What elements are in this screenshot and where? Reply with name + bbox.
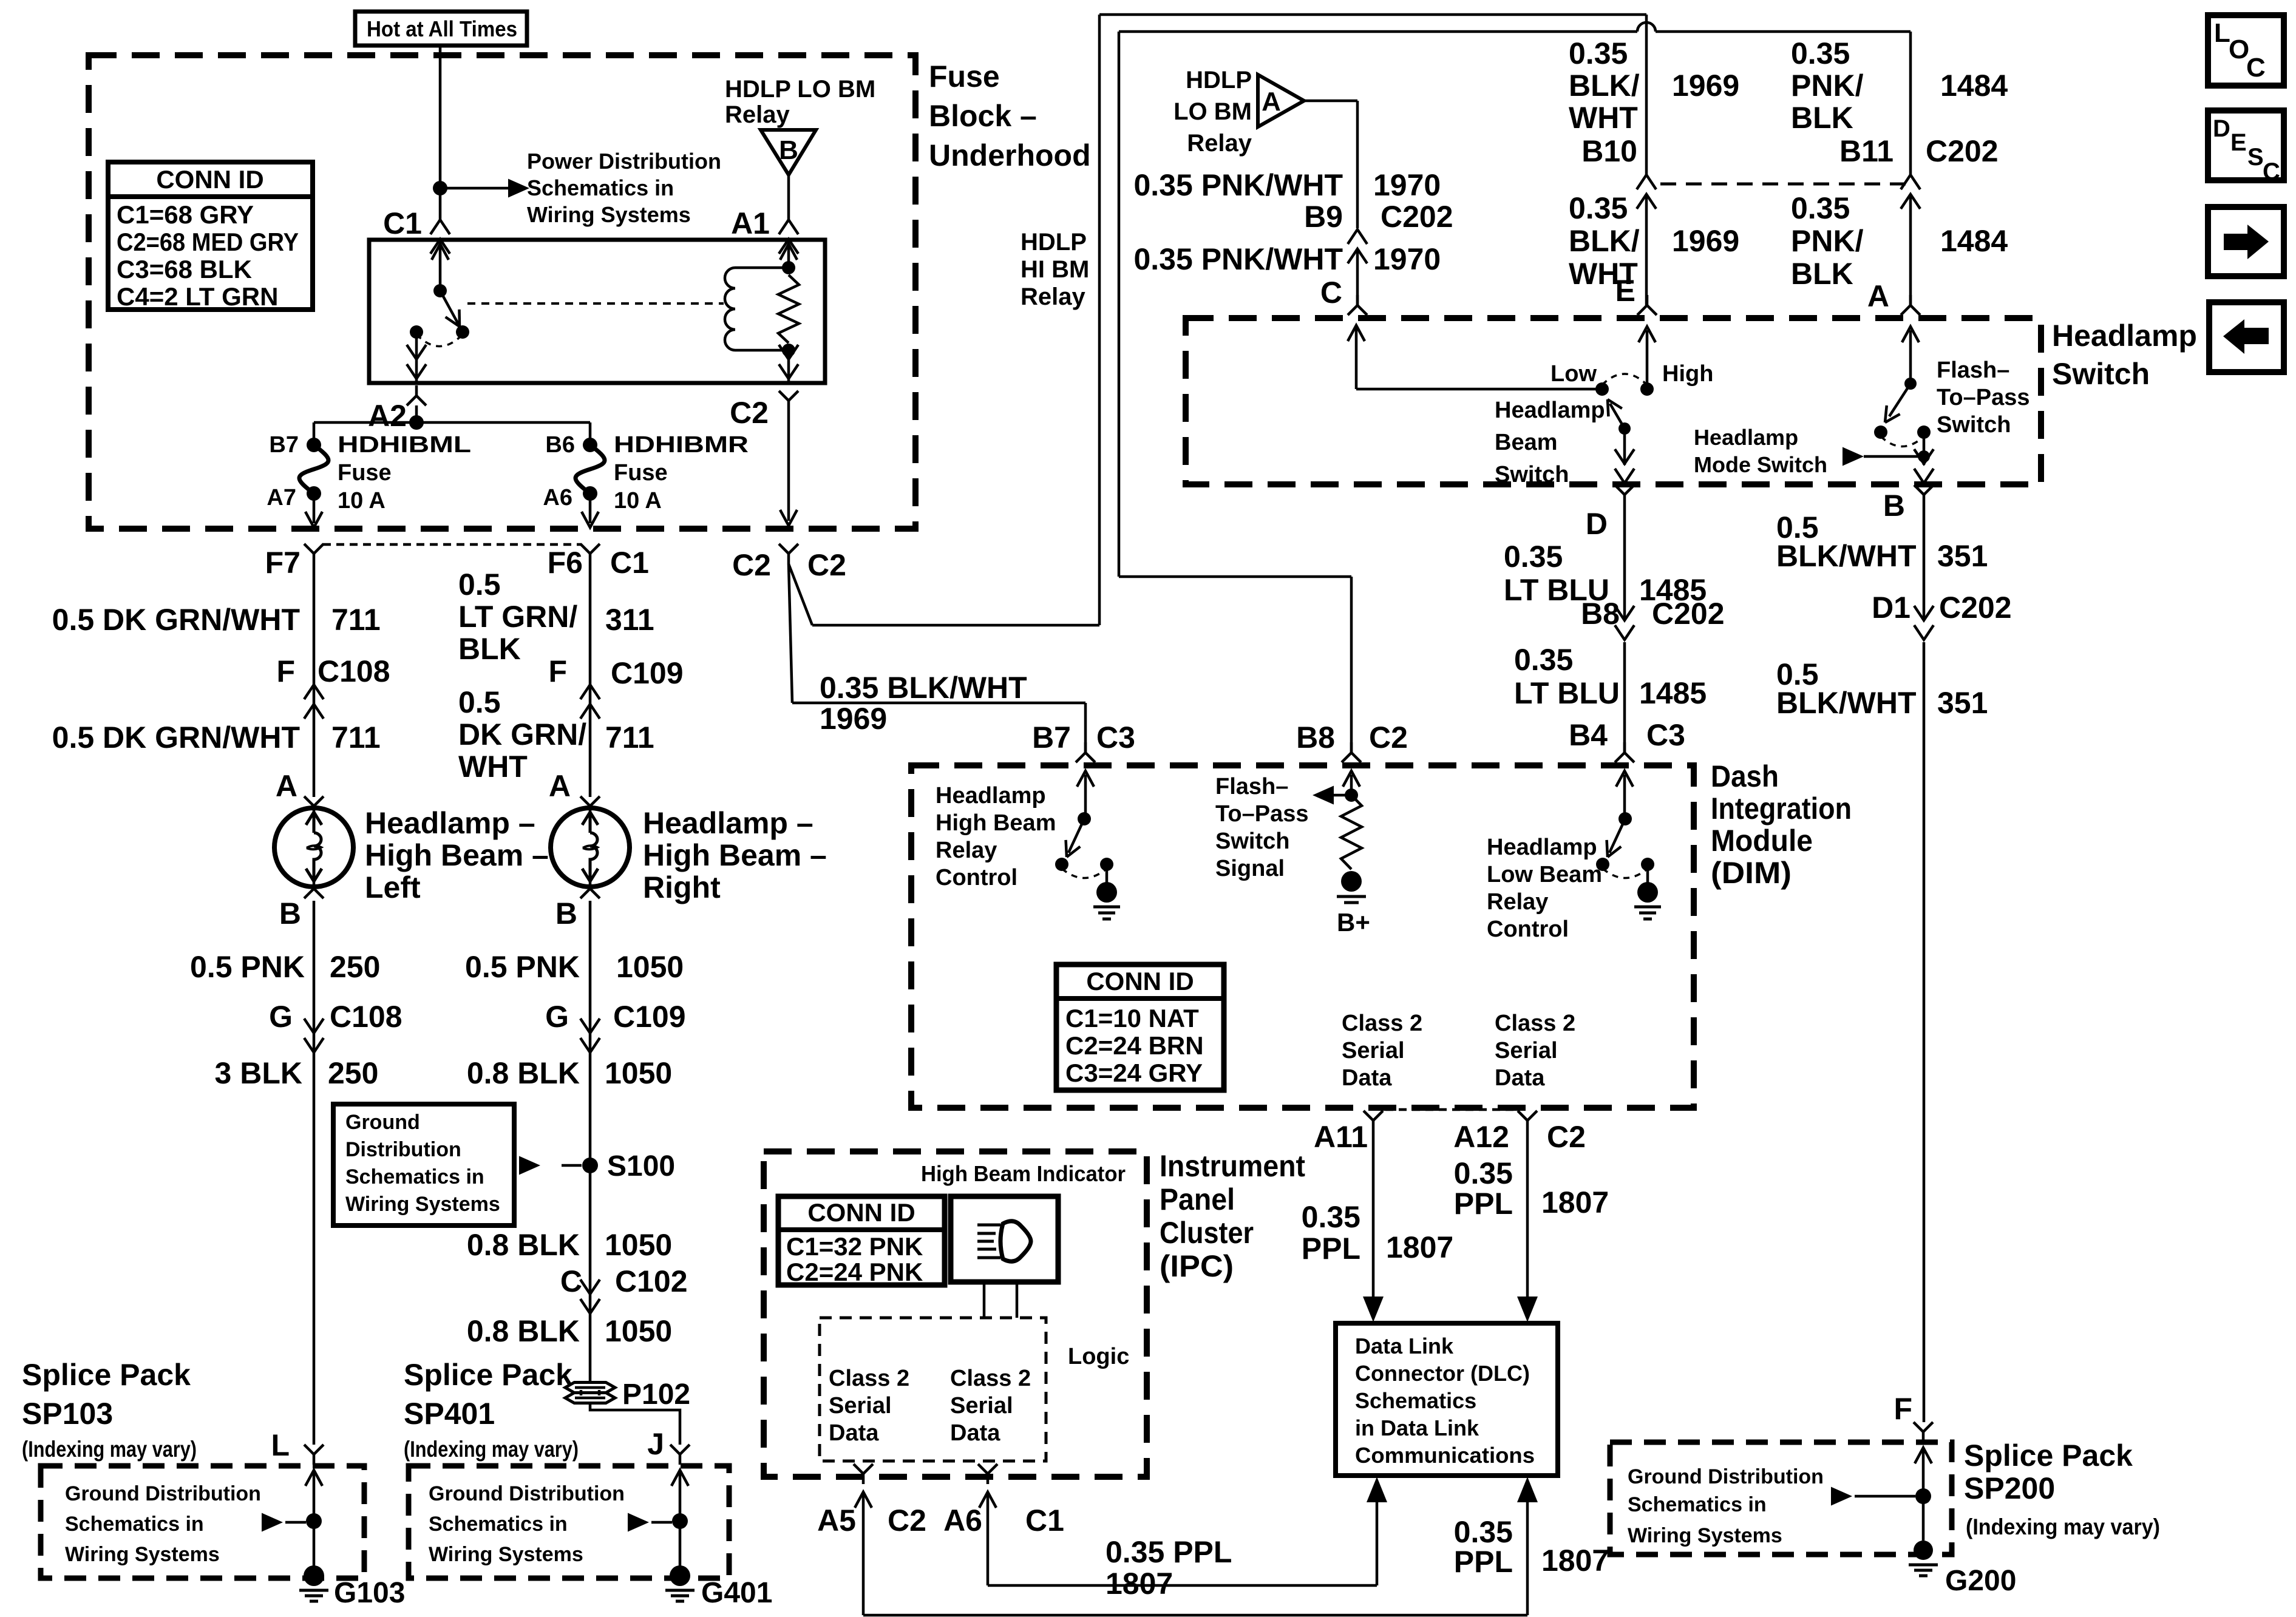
svg-text:C2=24 BRN: C2=24 BRN [1065, 1031, 1204, 1060]
svg-text:Dash: Dash [1711, 759, 1779, 793]
svg-text:(DIM): (DIM) [1711, 856, 1792, 890]
svg-text:Low: Low [1550, 361, 1597, 387]
svg-text:0.35: 0.35 [1569, 191, 1628, 225]
svg-text:Schematics in: Schematics in [65, 1513, 204, 1536]
svg-text:B11: B11 [1839, 134, 1894, 168]
svg-text:B8: B8 [1581, 597, 1620, 631]
svg-text:1807: 1807 [1541, 1544, 1609, 1578]
svg-text:Data: Data [1342, 1065, 1392, 1091]
svg-text:C4=2 LT GRN: C4=2 LT GRN [117, 282, 278, 311]
svg-text:C3: C3 [1646, 718, 1685, 752]
svg-text:S: S [2247, 144, 2264, 171]
svg-text:0.35: 0.35 [1791, 36, 1850, 70]
svg-text:711: 711 [331, 603, 381, 637]
svg-text:High: High [1662, 361, 1713, 387]
svg-text:L: L [2214, 18, 2230, 48]
svg-text:0.35: 0.35 [1569, 36, 1628, 70]
svg-text:Schematics in: Schematics in [429, 1513, 568, 1536]
svg-text:1807: 1807 [1541, 1185, 1609, 1219]
svg-text:Block –: Block – [929, 99, 1037, 133]
svg-text:Serial: Serial [1495, 1038, 1558, 1063]
svg-text:1050: 1050 [605, 1228, 672, 1262]
svg-text:P102: P102 [622, 1378, 690, 1411]
svg-text:BLK/: BLK/ [1569, 224, 1640, 258]
svg-text:A7: A7 [267, 485, 296, 510]
svg-text:Power Distribution: Power Distribution [527, 149, 721, 174]
svg-text:Headlamp: Headlamp [1487, 835, 1597, 860]
svg-text:C: C [2263, 158, 2280, 185]
svg-text:L: L [271, 1428, 290, 1462]
svg-text:HDLP: HDLP [1021, 229, 1087, 256]
svg-text:Module: Module [1711, 824, 1813, 858]
svg-text:SP401: SP401 [404, 1397, 495, 1431]
svg-text:C108: C108 [318, 654, 390, 688]
svg-text:0.8 BLK: 0.8 BLK [467, 1314, 580, 1348]
svg-text:Underhood: Underhood [929, 138, 1091, 172]
svg-text:A11: A11 [1314, 1120, 1368, 1154]
svg-text:C202: C202 [1381, 200, 1453, 234]
svg-text:(Indexing may vary): (Indexing may vary) [1966, 1514, 2160, 1539]
svg-text:G: G [545, 1000, 569, 1034]
svg-text:A1: A1 [731, 206, 770, 240]
svg-text:0.5 DK GRN/WHT: 0.5 DK GRN/WHT [52, 603, 300, 637]
svg-text:D: D [1586, 507, 1608, 541]
svg-text:HDHIBMR: HDHIBMR [614, 432, 749, 458]
svg-text:Headlamp: Headlamp [1694, 425, 1798, 450]
svg-text:1969: 1969 [820, 702, 887, 736]
svg-text:B10: B10 [1581, 134, 1637, 168]
svg-text:0.35: 0.35 [1454, 1515, 1513, 1549]
svg-text:WHT: WHT [458, 750, 528, 784]
svg-text:A5: A5 [817, 1503, 856, 1537]
svg-text:0.35 PPL: 0.35 PPL [1106, 1535, 1232, 1569]
svg-text:Control: Control [1487, 917, 1569, 942]
svg-text:LT GRN/: LT GRN/ [458, 600, 577, 634]
svg-text:F6: F6 [548, 546, 583, 580]
svg-text:Communications: Communications [1355, 1443, 1535, 1468]
svg-text:HDLP: HDLP [1186, 67, 1252, 93]
svg-text:0.5: 0.5 [458, 568, 501, 602]
svg-text:B8: B8 [1296, 720, 1335, 754]
svg-text:CONN ID: CONN ID [156, 165, 263, 194]
svg-text:C3=68 BLK: C3=68 BLK [117, 255, 252, 283]
svg-text:C1=32 PNK: C1=32 PNK [786, 1232, 923, 1261]
svg-text:A2: A2 [368, 399, 407, 433]
svg-text:S100: S100 [607, 1150, 675, 1182]
svg-text:To–Pass: To–Pass [1937, 385, 2029, 410]
svg-text:C2: C2 [1369, 720, 1408, 754]
svg-text:B7: B7 [269, 432, 299, 458]
svg-text:(IPC): (IPC) [1160, 1249, 1234, 1283]
svg-text:Switch: Switch [1495, 462, 1569, 487]
svg-text:Low Beam: Low Beam [1487, 862, 1602, 887]
svg-text:1485: 1485 [1639, 676, 1707, 710]
svg-text:J: J [647, 1427, 664, 1461]
svg-text:3 BLK: 3 BLK [215, 1056, 302, 1090]
svg-text:1050: 1050 [605, 1056, 672, 1090]
svg-text:1969: 1969 [1672, 224, 1739, 258]
svg-text:PNK/: PNK/ [1791, 69, 1864, 103]
svg-text:Ground Distribution: Ground Distribution [429, 1482, 625, 1505]
svg-text:Switch: Switch [1215, 829, 1289, 854]
svg-text:Headlamp –: Headlamp – [643, 806, 813, 840]
svg-text:E: E [2230, 129, 2247, 156]
svg-text:711: 711 [605, 720, 654, 754]
svg-text:B4: B4 [1569, 718, 1608, 752]
svg-text:C2: C2 [1547, 1120, 1586, 1154]
svg-text:C1: C1 [383, 206, 422, 240]
svg-text:F: F [1894, 1392, 1912, 1426]
svg-text:Data Link: Data Link [1355, 1334, 1454, 1358]
svg-text:C108: C108 [330, 1000, 402, 1034]
svg-text:CONN ID: CONN ID [1086, 967, 1194, 995]
svg-text:0.35 PNK/WHT: 0.35 PNK/WHT [1133, 168, 1343, 202]
svg-text:250: 250 [328, 1056, 378, 1090]
svg-text:0.35: 0.35 [1791, 191, 1850, 225]
svg-text:B7: B7 [1032, 720, 1071, 754]
svg-text:WHT: WHT [1569, 101, 1638, 135]
svg-text:F7: F7 [265, 546, 301, 580]
svg-text:0.35: 0.35 [1454, 1156, 1513, 1190]
svg-text:B: B [779, 135, 798, 165]
svg-text:E: E [1615, 274, 1635, 308]
svg-text:0.35: 0.35 [1302, 1200, 1360, 1234]
svg-text:PPL: PPL [1454, 1545, 1513, 1579]
svg-text:C1: C1 [1025, 1503, 1064, 1537]
svg-text:Relay: Relay [725, 101, 790, 128]
svg-text:A6: A6 [943, 1503, 982, 1537]
svg-text:Headlamp: Headlamp [2052, 319, 2197, 353]
svg-text:BLK/: BLK/ [1569, 69, 1640, 103]
svg-text:SP103: SP103 [22, 1397, 113, 1431]
svg-text:in Data Link: in Data Link [1355, 1415, 1479, 1440]
svg-text:Schematics in: Schematics in [527, 175, 674, 200]
svg-text:BLK: BLK [458, 632, 521, 666]
svg-text:311: 311 [605, 603, 654, 637]
svg-text:BLK/WHT: BLK/WHT [1776, 539, 1917, 573]
svg-text:Relay: Relay [936, 838, 997, 863]
svg-text:Left: Left [365, 870, 421, 904]
svg-text:C202: C202 [1939, 591, 2012, 625]
svg-text:1050: 1050 [616, 950, 684, 984]
svg-text:Serial: Serial [950, 1393, 1013, 1419]
svg-text:BLK/WHT: BLK/WHT [1776, 686, 1917, 720]
svg-text:Schematics in: Schematics in [345, 1165, 484, 1188]
svg-text:B9: B9 [1304, 200, 1343, 234]
svg-text:D1: D1 [1872, 591, 1911, 625]
svg-text:HI BM: HI BM [1021, 256, 1089, 283]
svg-text:1807: 1807 [1106, 1567, 1173, 1601]
svg-text:BLK: BLK [1791, 101, 1853, 135]
svg-text:F: F [548, 654, 567, 688]
svg-text:Data: Data [829, 1420, 879, 1446]
svg-text:Splice Pack: Splice Pack [404, 1358, 572, 1392]
svg-text:Flash–: Flash– [1215, 774, 1288, 799]
svg-text:Data: Data [950, 1420, 1000, 1446]
svg-text:Control: Control [936, 865, 1017, 890]
svg-text:Headlamp: Headlamp [1495, 398, 1605, 423]
svg-text:1050: 1050 [605, 1314, 672, 1348]
svg-text:A: A [276, 769, 297, 803]
svg-text:0.5 DK GRN/WHT: 0.5 DK GRN/WHT [52, 720, 300, 754]
svg-text:Beam: Beam [1495, 430, 1558, 455]
svg-text:C1=10 NAT: C1=10 NAT [1065, 1004, 1199, 1032]
svg-text:G103: G103 [334, 1577, 405, 1609]
svg-text:Splice Pack: Splice Pack [1964, 1439, 2133, 1473]
svg-text:C1: C1 [610, 546, 649, 580]
svg-text:Ground Distribution: Ground Distribution [65, 1482, 261, 1505]
svg-text:0.35 BLK/WHT: 0.35 BLK/WHT [820, 671, 1027, 705]
svg-text:0.8 BLK: 0.8 BLK [467, 1228, 580, 1262]
svg-text:Mode Switch: Mode Switch [1694, 452, 1827, 477]
svg-text:Right: Right [643, 870, 721, 904]
svg-text:PPL: PPL [1302, 1232, 1360, 1266]
svg-text:SP200: SP200 [1964, 1471, 2055, 1505]
svg-text:0.35: 0.35 [1514, 643, 1573, 677]
svg-text:Wiring Systems: Wiring Systems [345, 1193, 500, 1216]
svg-text:711: 711 [331, 720, 381, 754]
svg-text:LO BM: LO BM [1173, 98, 1252, 125]
svg-text:B: B [1883, 489, 1905, 523]
svg-text:Switch: Switch [1937, 412, 2011, 438]
svg-text:B: B [279, 897, 301, 931]
svg-text:B: B [555, 897, 577, 931]
svg-text:(Indexing may vary): (Indexing may vary) [22, 1437, 197, 1462]
svg-text:Splice Pack: Splice Pack [22, 1358, 191, 1392]
svg-text:Relay: Relay [1487, 889, 1548, 915]
svg-text:CONN ID: CONN ID [807, 1198, 915, 1227]
svg-text:Connector (DLC): Connector (DLC) [1355, 1361, 1530, 1386]
svg-text:Schematics in: Schematics in [1628, 1493, 1767, 1516]
svg-text:0.5 PNK: 0.5 PNK [465, 950, 580, 984]
svg-text:HDLP LO BM: HDLP LO BM [725, 76, 875, 103]
svg-text:PNK/: PNK/ [1791, 224, 1864, 258]
svg-text:Switch: Switch [2052, 357, 2150, 391]
svg-text:Logic: Logic [1068, 1344, 1129, 1369]
svg-text:1969: 1969 [1672, 69, 1739, 103]
svg-text:C1=68 GRY: C1=68 GRY [117, 200, 254, 229]
svg-text:High Beam: High Beam [936, 810, 1056, 836]
svg-text:C2: C2 [807, 548, 846, 582]
svg-text:C109: C109 [611, 656, 684, 690]
svg-text:C202: C202 [1652, 597, 1725, 631]
svg-text:C109: C109 [613, 1000, 686, 1034]
svg-text:C: C [560, 1264, 582, 1298]
svg-text:C2=24 PNK: C2=24 PNK [786, 1258, 923, 1286]
svg-text:C102: C102 [615, 1264, 688, 1298]
svg-text:BLK: BLK [1791, 257, 1853, 291]
svg-text:Serial: Serial [1342, 1038, 1405, 1063]
svg-text:High Beam Indicator: High Beam Indicator [921, 1161, 1126, 1186]
svg-text:10 A: 10 A [614, 488, 662, 514]
svg-text:Ground: Ground [345, 1111, 420, 1134]
svg-text:Schematics: Schematics [1355, 1388, 1476, 1413]
svg-text:Instrument: Instrument [1160, 1149, 1305, 1183]
svg-text:HDHIBML: HDHIBML [338, 432, 471, 458]
svg-text:C2: C2 [888, 1503, 926, 1537]
svg-text:A6: A6 [543, 485, 572, 510]
svg-text:G200: G200 [1945, 1565, 2016, 1597]
svg-text:DK GRN/: DK GRN/ [458, 717, 586, 751]
svg-text:Wiring Systems: Wiring Systems [65, 1543, 220, 1566]
svg-text:A: A [549, 769, 571, 803]
svg-text:Signal: Signal [1215, 856, 1285, 881]
svg-text:0.5: 0.5 [458, 685, 501, 719]
svg-text:250: 250 [330, 950, 380, 984]
svg-text:Flash–: Flash– [1937, 358, 2009, 383]
svg-text:Fuse: Fuse [338, 460, 392, 486]
svg-text:A: A [1867, 279, 1889, 313]
svg-text:Ground Distribution: Ground Distribution [1628, 1465, 1824, 1488]
svg-text:C202: C202 [1926, 134, 1999, 168]
svg-text:C2: C2 [732, 548, 771, 582]
svg-text:Wiring Systems: Wiring Systems [1628, 1524, 1782, 1547]
svg-text:Integration: Integration [1711, 792, 1852, 825]
svg-text:1484: 1484 [1940, 69, 2008, 103]
svg-text:Class 2: Class 2 [1495, 1011, 1575, 1036]
svg-text:C3=24 GRY: C3=24 GRY [1065, 1059, 1203, 1087]
svg-text:G401: G401 [701, 1577, 772, 1609]
svg-text:B6: B6 [545, 432, 575, 458]
svg-text:Class 2: Class 2 [950, 1366, 1031, 1391]
svg-text:C2=68 MED GRY: C2=68 MED GRY [117, 228, 299, 256]
svg-text:Fuse: Fuse [929, 59, 1000, 93]
svg-text:Class 2: Class 2 [1342, 1011, 1422, 1036]
svg-text:(Indexing may vary): (Indexing may vary) [404, 1437, 579, 1462]
svg-text:351: 351 [1937, 539, 1988, 573]
svg-text:High Beam –: High Beam – [365, 838, 549, 872]
svg-text:Headlamp: Headlamp [936, 783, 1046, 808]
svg-text:C2: C2 [730, 396, 769, 430]
svg-text:Hot at All Times: Hot at All Times [367, 16, 517, 41]
svg-text:F: F [276, 654, 295, 688]
svg-text:Wiring Systems: Wiring Systems [527, 202, 691, 227]
svg-text:B+: B+ [1337, 908, 1370, 937]
svg-text:G: G [269, 1000, 293, 1034]
svg-text:0.8 BLK: 0.8 BLK [467, 1056, 580, 1090]
svg-text:C3: C3 [1096, 720, 1135, 754]
svg-text:1970: 1970 [1373, 242, 1441, 276]
svg-text:0.35: 0.35 [1504, 540, 1563, 574]
svg-text:High Beam –: High Beam – [643, 838, 827, 872]
svg-text:1807: 1807 [1386, 1230, 1453, 1264]
svg-text:Distribution: Distribution [345, 1138, 461, 1161]
svg-text:C: C [2246, 53, 2266, 83]
svg-text:Headlamp –: Headlamp – [365, 806, 535, 840]
svg-text:PPL: PPL [1454, 1187, 1513, 1221]
svg-text:Panel: Panel [1160, 1182, 1235, 1216]
svg-text:A: A [1262, 87, 1281, 117]
svg-text:To–Pass: To–Pass [1215, 801, 1308, 827]
svg-text:351: 351 [1937, 686, 1988, 720]
svg-text:Class 2: Class 2 [829, 1366, 909, 1391]
svg-text:Cluster: Cluster [1160, 1216, 1254, 1250]
svg-text:1484: 1484 [1940, 224, 2008, 258]
svg-text:D: D [2213, 115, 2230, 142]
svg-text:Relay: Relay [1187, 130, 1252, 157]
svg-text:C: C [1320, 276, 1342, 310]
svg-text:Serial: Serial [829, 1393, 892, 1419]
svg-text:LT BLU: LT BLU [1514, 676, 1620, 710]
svg-text:Fuse: Fuse [614, 460, 668, 486]
svg-text:Wiring Systems: Wiring Systems [429, 1543, 583, 1566]
svg-text:0.5 PNK: 0.5 PNK [190, 950, 305, 984]
svg-text:A12: A12 [1453, 1120, 1509, 1154]
svg-text:Relay: Relay [1021, 283, 1085, 310]
svg-text:1970: 1970 [1373, 168, 1441, 202]
svg-text:0.35 PNK/WHT: 0.35 PNK/WHT [1133, 242, 1343, 276]
svg-text:Data: Data [1495, 1065, 1545, 1091]
svg-text:10 A: 10 A [338, 488, 385, 514]
